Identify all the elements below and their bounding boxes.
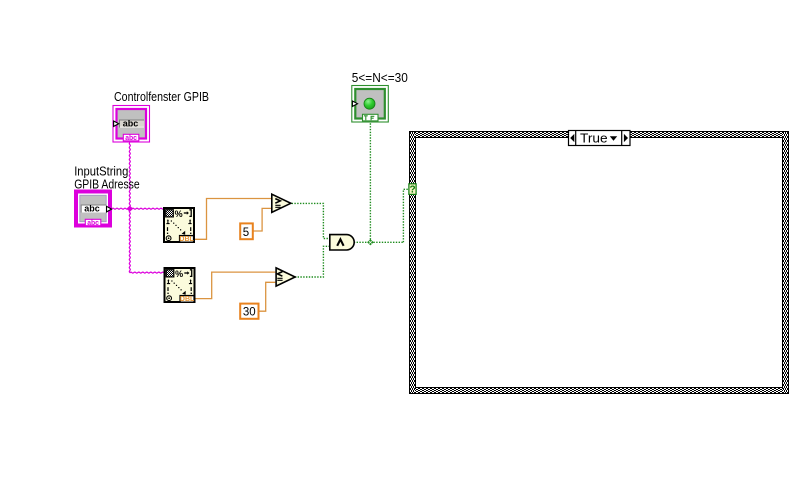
svg-text:abc: abc [84,204,100,214]
svg-text:?: ? [410,185,416,196]
svg-text:%: % [175,209,183,219]
svg-text:Controlfenster GPIB: Controlfenster GPIB [114,89,209,104]
svg-text:DBL: DBL [180,296,195,303]
svg-text:GPIB Adresse: GPIB Adresse [74,177,140,192]
svg-text:abc: abc [87,218,99,227]
svg-text:%: % [175,269,183,279]
svg-text:DBL: DBL [179,236,194,243]
svg-text:abc: abc [123,119,139,129]
svg-text:5<=N<=30: 5<=N<=30 [352,70,408,85]
svg-text:5: 5 [243,227,249,239]
svg-text:abc: abc [125,133,137,142]
svg-text:30: 30 [243,307,256,319]
svg-text:True: True [580,130,608,145]
